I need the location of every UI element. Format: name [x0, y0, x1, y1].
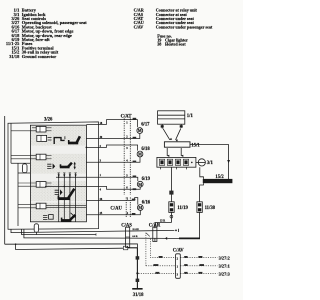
- bus wire V4 with plug arrow: [75, 173, 77, 222]
- bus wire V3 with plug arrow: [69, 173, 71, 222]
- svg-text:C/AS: C/AS: [121, 224, 132, 229]
- svg-text:C/AR: C/AR: [149, 224, 161, 229]
- row 1 left marks: [48, 138, 52, 141]
- svg-text:31/18: 31/18: [133, 293, 144, 298]
- motor 6/17: [137, 128, 143, 134]
- stub wire at pill P2: [22, 229, 97, 234]
- switch S1: [36, 126, 46, 132]
- dashed wire into C/AV pin 1: [146, 265, 176, 267]
- stub tick: [95, 233, 97, 236]
- wire fuse 11/38 down and left (heated seat feed): [167, 212, 199, 238]
- wire label: [132, 213, 136, 215]
- wire fuse 11/19 down to C/AR: [155, 212, 172, 228]
- svg-text:C/AV: C/AV: [134, 24, 144, 29]
- connector C/AT dashed lines: [123, 118, 125, 194]
- adjust icon 4: [43, 215, 47, 219]
- dashed output to 3/27:2: [180, 257, 217, 259]
- wire p4: motor 6/18 back to box: [86, 157, 140, 162]
- wire label: [184, 256, 187, 258]
- seat icon 1: [68, 136, 80, 143]
- component pill P1: [22, 164, 27, 173]
- svg-text:1: 1: [126, 121, 128, 124]
- switch S1 right stubs: [46, 127, 52, 129]
- svg-text:11/19: 11/19: [177, 206, 188, 211]
- positive terminal 15/1 bar: [164, 142, 190, 147]
- wire p5: box to motor 6/19: [86, 177, 137, 181]
- wire label: [155, 272, 159, 274]
- riser arrow: [146, 233, 150, 236]
- interior bus line p6 start: [45, 185, 86, 187]
- unit band 3: [31, 181, 86, 201]
- battery 1/1: [158, 111, 185, 124]
- pin 1 box: [123, 246, 127, 250]
- svg-text:3/27:2: 3/27:2: [219, 256, 230, 261]
- svg-text:3: 3: [177, 274, 179, 277]
- adjust icon 1: [54, 138, 64, 144]
- seat icon 2: [60, 163, 72, 168]
- svg-text:1/1: 1/1: [187, 114, 194, 119]
- svg-text:6/17: 6/17: [141, 123, 150, 128]
- wire label: [184, 272, 187, 274]
- svg-text:6/19: 6/19: [142, 177, 151, 182]
- legend right column: [134, 8, 213, 47]
- motor 6/16: [137, 205, 143, 211]
- box pin numbers at right edge: [100, 122, 103, 215]
- pill P2 lead: [35, 232, 37, 235]
- arrow on right rail: [227, 160, 230, 163]
- wire label: [159, 256, 163, 258]
- fuse 11/38: [197, 202, 202, 213]
- terminal dot and tick: [175, 230, 177, 232]
- legend left column: [6, 8, 87, 59]
- junction dot: [86, 147, 88, 149]
- terminal circle on wire: [170, 215, 173, 218]
- svg-text:1: 1: [177, 265, 179, 268]
- wire ignition to fuse 11/19: [170, 167, 172, 202]
- wire label: [132, 199, 136, 201]
- svg-text:M: M: [138, 152, 142, 157]
- ignition strip lower pin ticks: [161, 167, 187, 169]
- plug arrows 15/1 to ignition: [166, 148, 168, 156]
- ignition lock fuse strip: [157, 157, 196, 167]
- seat icon 4: [61, 215, 75, 221]
- wire label: [136, 279, 140, 282]
- wire p6: motor 6/19 back to box: [86, 186, 140, 189]
- switch S4: [36, 203, 46, 209]
- wire lower step to C/AS pin 1: [16, 244, 124, 249]
- dashed output to 3/27:1: [180, 265, 217, 267]
- svg-text:15 GN: 15 GN: [132, 229, 139, 231]
- switch S2: [36, 154, 46, 160]
- wire ground run from left frame: [5, 244, 138, 248]
- interior bus line p5 start: [56, 176, 86, 178]
- motor 6/18: [137, 151, 143, 157]
- svg-text:31/18: 31/18: [9, 54, 20, 59]
- wire bottom A: box to C/AR terminal: [11, 229, 174, 232]
- svg-text:6.0 R: 6.0 R: [132, 236, 137, 238]
- svg-text:4: 4: [100, 189, 102, 192]
- svg-text:C/AV: C/AV: [173, 249, 184, 254]
- svg-text:3/27:3: 3/27:3: [219, 272, 230, 277]
- adjust tick 1: [64, 136, 66, 139]
- svg-text:3: 3: [126, 147, 128, 150]
- C/AS pin 1 lead: [127, 246, 129, 247]
- switch S3 stubs: [18, 182, 36, 184]
- wire label: [136, 256, 140, 259]
- wire label: [133, 137, 137, 139]
- heavy wire segment: [179, 237, 200, 239]
- wire p8: motor 6/16 back to box: [86, 210, 140, 214]
- wire p2: motor 6/17 back to box: [86, 134, 139, 139]
- wire p3: box to motor 6/18: [86, 145, 137, 151]
- svg-text:M: M: [138, 205, 142, 210]
- junction node on ground wire: [136, 272, 138, 274]
- svg-text:15 R: 15 R: [160, 219, 165, 222]
- dashed wire into C/AV pin 2: [151, 239, 176, 258]
- unit band 4: [31, 203, 86, 221]
- adjust box 4: [49, 215, 54, 220]
- seat control unit 3/26 outer box: [8, 122, 99, 229]
- junction on ground run: [15, 243, 17, 245]
- switch S1 stubs: [32, 127, 36, 129]
- bus wire V1 with plug arrow: [58, 173, 60, 222]
- svg-text:M: M: [138, 128, 142, 133]
- wire p1: box to motor 6/17: [86, 120, 137, 128]
- dashed wire ground node to C/AV pin 3: [139, 273, 176, 275]
- wire label: [169, 191, 173, 195]
- wire label: [133, 188, 137, 190]
- wire ignition to 15/2: [200, 167, 204, 179]
- adjust icon 2: [47, 164, 51, 168]
- connector C/AR box: [153, 227, 157, 241]
- wire bottom B: box to heated seat feed: [24, 229, 167, 238]
- ground connector 31/18 symbol: [132, 288, 142, 290]
- seat control unit inner module box: [30, 125, 86, 222]
- switch S2 stubs: [11, 154, 36, 156]
- interior wire lower: [18, 172, 30, 174]
- switch S1b: [37, 135, 47, 141]
- junction dots on feed bus: [58, 176, 60, 178]
- dashed riser to C/AV pin 1: [145, 233, 147, 266]
- svg-text:3/1: 3/1: [207, 161, 214, 166]
- svg-text:2: 2: [177, 257, 179, 260]
- wire label: [133, 118, 137, 120]
- motor 6/19: [137, 181, 143, 187]
- interior feed bus B: [17, 163, 19, 226]
- adjust icon 3: [55, 190, 59, 194]
- switch S4 stubs: [18, 204, 36, 206]
- switch S4 right stubs: [46, 204, 86, 206]
- bus wire V2 with plug arrow: [63, 173, 65, 222]
- wire label: [133, 176, 137, 178]
- switch S2 right stubs: [46, 154, 52, 156]
- seat arrow 4: [71, 213, 76, 218]
- svg-text:C/AU: C/AU: [110, 207, 122, 212]
- wire C/AS pin 1 to ground: [128, 247, 138, 249]
- svg-text:6/18: 6/18: [141, 147, 150, 152]
- wire label: [184, 264, 187, 266]
- ground wire down: [136, 248, 138, 289]
- svg-text:11/38: 11/38: [205, 206, 216, 211]
- svg-text:Ground connector: Ground connector: [22, 54, 56, 59]
- wire C/AR bottom pin: [154, 238, 156, 241]
- wire 15/2 to fuse 11/38: [200, 183, 204, 202]
- left frame wire: [4, 116, 6, 244]
- battery terminal + left: [162, 124, 181, 128]
- ignition lock 3/1 key symbol: [198, 159, 205, 166]
- svg-text:Heated seat: Heated seat: [165, 41, 186, 46]
- svg-text:1: 1: [100, 174, 102, 177]
- wire 15/1 to right rail: [190, 145, 229, 179]
- connector C/AU dashed lines: [125, 197, 127, 217]
- wire label: [153, 264, 158, 266]
- seat icon 3: [58, 189, 75, 199]
- 30-rail 15/2 bar: [203, 179, 233, 183]
- dashed output to 3/27:3: [180, 273, 217, 275]
- svg-text:3/26: 3/26: [44, 118, 53, 123]
- fuse 11/19: [169, 202, 174, 213]
- battery lead arrows to 15/1: [163, 129, 170, 140]
- wire label: [133, 161, 137, 163]
- svg-text:38: 38: [157, 41, 161, 46]
- unit band 2: [31, 154, 86, 174]
- wire p7: box to motor 6/16: [86, 198, 137, 205]
- seat arrow 2 up-down: [74, 163, 76, 167]
- svg-text:M: M: [138, 182, 142, 187]
- component pill P2: [34, 224, 38, 232]
- connector C/AV box: [176, 254, 181, 278]
- svg-text:3/27:1: 3/27:1: [219, 264, 230, 269]
- switch S3: [36, 182, 46, 188]
- switch S3 right stubs: [46, 182, 52, 184]
- svg-text:Connector under passenger seat: Connector under passenger seat: [156, 24, 213, 29]
- interior feed bus A: [10, 123, 12, 163]
- svg-text:6/16: 6/16: [142, 201, 151, 206]
- connector C/AS box: [126, 227, 130, 247]
- svg-text:1: 1: [127, 197, 129, 200]
- unit band 1: [31, 126, 86, 146]
- interior wire to inner box: [11, 162, 30, 164]
- terminal at left end: [165, 237, 167, 240]
